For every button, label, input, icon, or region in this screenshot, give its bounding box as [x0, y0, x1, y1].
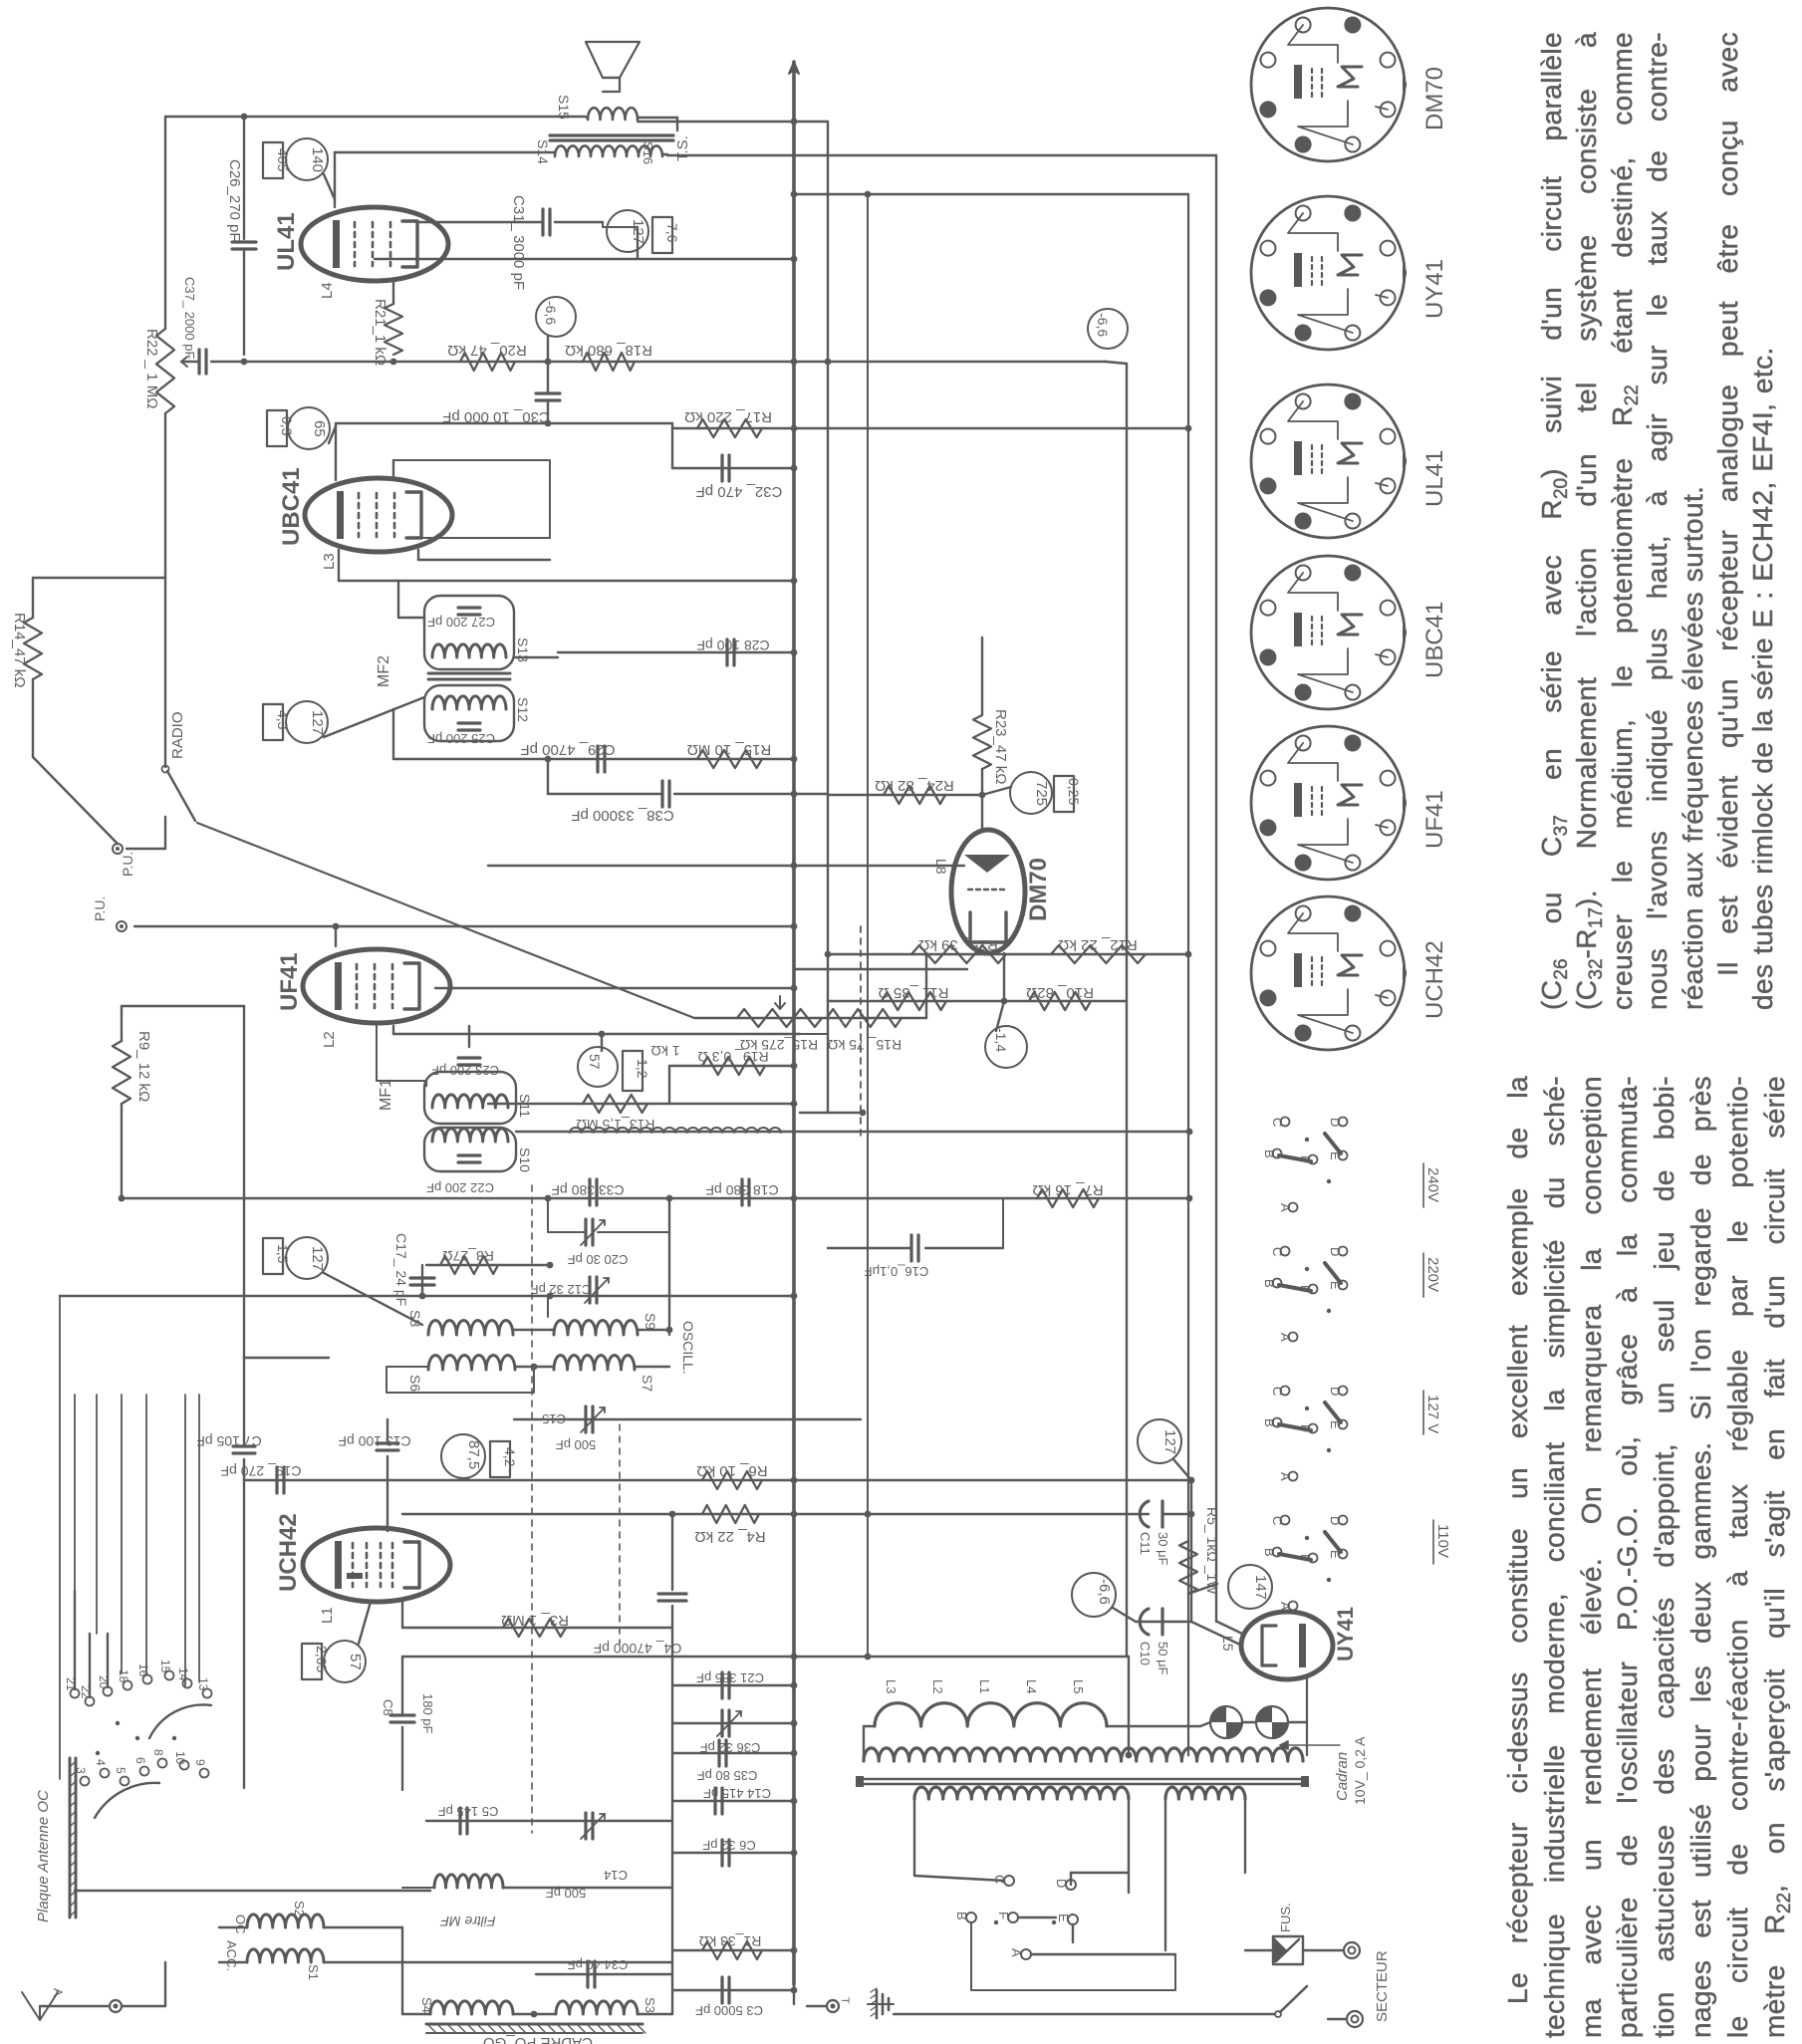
svg-text:R23_47 kΩ: R23_47 kΩ: [992, 709, 1009, 784]
svg-text:C14: C14: [604, 1868, 628, 1883]
svg-text:A: A: [1009, 1948, 1024, 1957]
svg-text:S10: S10: [517, 1148, 533, 1172]
svg-text:D: D: [1328, 1247, 1343, 1256]
svg-text:S6: S6: [407, 1375, 423, 1392]
svg-text:S11: S11: [517, 1094, 533, 1118]
svg-text:C14 415 pF: C14 415 pF: [703, 1786, 771, 1801]
svg-text:C12 32 pF: C12 32 pF: [531, 1282, 592, 1297]
svg-text:R8_27Ω: R8_27Ω: [442, 1248, 494, 1264]
svg-text:0,3: 0,3: [279, 416, 295, 436]
svg-text:S14: S14: [535, 139, 551, 164]
svg-text:S9: S9: [643, 1313, 658, 1330]
svg-text:127: 127: [1161, 1429, 1178, 1454]
svg-text:UF41: UF41: [276, 952, 303, 1011]
svg-text:S16: S16: [641, 141, 655, 164]
svg-text:C20 30 pF: C20 30 pF: [568, 1252, 629, 1267]
svg-text:FUS.: FUS.: [1278, 1903, 1293, 1932]
svg-text:R7_ 16 kΩ: R7_ 16 kΩ: [1032, 1181, 1103, 1198]
svg-text:220V: 220V: [1424, 1257, 1441, 1292]
svg-text:L3: L3: [884, 1679, 899, 1693]
svg-text:R20_ 47 kΩ: R20_ 47 kΩ: [447, 342, 527, 359]
svg-text:57: 57: [347, 1654, 364, 1670]
svg-text:9: 9: [193, 1759, 207, 1766]
svg-text:15: 15: [158, 1660, 172, 1673]
svg-text:10V_ 0,2 A: 10V_ 0,2 A: [1352, 1736, 1368, 1805]
svg-text:F: F: [1298, 1155, 1313, 1163]
svg-text:4,2: 4,2: [502, 1447, 518, 1467]
svg-text:57: 57: [587, 1054, 603, 1070]
svg-text:D: D: [1054, 1879, 1069, 1888]
svg-text:R19_ 0,3 Ω: R19_ 0,3 Ω: [697, 1049, 768, 1065]
svg-text:L5: L5: [1071, 1679, 1086, 1693]
svg-text:DM70: DM70: [1421, 67, 1448, 130]
svg-text:L4: L4: [1024, 1679, 1039, 1693]
svg-text:C5 145 pF: C5 145 pF: [438, 1804, 499, 1819]
svg-text:F: F: [1298, 1554, 1313, 1562]
svg-text:S8: S8: [407, 1310, 423, 1327]
svg-text:127: 127: [309, 710, 326, 735]
svg-text:C4_ 47000 pF: C4_ 47000 pF: [594, 1641, 682, 1657]
svg-text:UBC41: UBC41: [1421, 602, 1448, 678]
svg-text:Cadran: Cadran: [1334, 1752, 1351, 1801]
svg-text:D: D: [1328, 1516, 1343, 1525]
svg-text:S15: S15: [556, 95, 572, 120]
svg-text:L1: L1: [977, 1679, 992, 1693]
svg-text:725: 725: [1033, 781, 1050, 806]
svg-text:R18_ 680 kΩ: R18_ 680 kΩ: [565, 342, 652, 359]
svg-text:C: C: [1270, 1118, 1285, 1127]
svg-text:30 μF: 30 μF: [1156, 1532, 1170, 1566]
svg-text:E: E: [1328, 1550, 1343, 1559]
svg-text:E: E: [1328, 1420, 1343, 1429]
svg-text:S4: S4: [419, 1997, 434, 2013]
svg-text:R10_ 82Ω: R10_ 82Ω: [1026, 984, 1094, 1001]
svg-text:C32_ 470 pF: C32_ 470 pF: [696, 483, 783, 500]
svg-text:R5_ 1kΩ _1W: R5_ 1kΩ _1W: [1204, 1507, 1220, 1595]
svg-text:R15_ 10 MΩ: R15_ 10 MΩ: [687, 741, 772, 758]
svg-text:7,6: 7,6: [664, 223, 680, 243]
svg-text:C6 32 pF: C6 32 pF: [702, 1838, 756, 1853]
svg-text:S3: S3: [643, 1997, 657, 2013]
svg-text:C34 40 pF: C34 40 pF: [568, 1957, 629, 1972]
svg-text:Plaque Antenne OC: Plaque Antenne OC: [35, 1790, 52, 1922]
svg-text:C: C: [1270, 1387, 1285, 1396]
svg-text:C29_ 4700 pF: C29_ 4700 pF: [520, 741, 615, 758]
svg-text:C31_ 3000 pF: C31_ 3000 pF: [510, 195, 527, 290]
svg-text:R15_ 75 kΩ: R15_ 75 kΩ: [828, 1037, 901, 1053]
svg-text:C19_ 270 pF: C19_ 270 pF: [221, 1463, 302, 1479]
svg-text:-6,6: -6,6: [1095, 313, 1111, 337]
svg-text:C33 380 pF: C33 380 pF: [551, 1182, 624, 1198]
svg-text:ACC.: ACC.: [224, 1940, 239, 1971]
svg-text:D: D: [1328, 1118, 1343, 1127]
svg-text:C8: C8: [381, 1699, 395, 1716]
svg-text:10: 10: [173, 1751, 187, 1765]
svg-text:127: 127: [309, 1246, 326, 1271]
svg-text:C25 200 pF: C25 200 pF: [427, 731, 495, 746]
svg-text:UY41: UY41: [1333, 1607, 1358, 1661]
svg-text:R6_ 10 kΩ: R6_ 10 kΩ: [696, 1462, 767, 1479]
svg-text:L2: L2: [321, 1031, 338, 1048]
svg-text:F: F: [996, 1912, 1011, 1919]
svg-text:C7 105 pF: C7 105 pF: [196, 1433, 261, 1449]
svg-text:F: F: [1298, 1424, 1313, 1432]
svg-text:UBC41: UBC41: [278, 467, 305, 546]
svg-text:-6,6: -6,6: [543, 301, 559, 325]
svg-text:E: E: [1056, 1914, 1071, 1922]
svg-text:UY41: UY41: [1421, 259, 1448, 319]
svg-text:C28 100 pF: C28 100 pF: [696, 638, 769, 653]
svg-text:C11: C11: [1138, 1532, 1153, 1555]
svg-text:C23 200 pF: C23 200 pF: [431, 1063, 499, 1078]
svg-text:B: B: [954, 1912, 969, 1920]
svg-text:0,25: 0,25: [1066, 778, 1082, 805]
svg-text:240V: 240V: [1424, 1167, 1441, 1202]
svg-text:18: 18: [117, 1669, 130, 1683]
svg-text:A: A: [1278, 1203, 1293, 1212]
svg-text:500 pF: 500 pF: [556, 1437, 597, 1452]
svg-text:L5: L5: [1220, 1636, 1236, 1652]
svg-text:16: 16: [136, 1663, 150, 1677]
svg-text:C16_0,1μF: C16_0,1μF: [865, 1264, 929, 1279]
svg-text:3: 3: [74, 1767, 88, 1774]
svg-text:A: A: [1278, 1472, 1293, 1481]
svg-text:A: A: [1278, 1602, 1293, 1611]
svg-text:C18 380 pF: C18 380 pF: [705, 1182, 778, 1198]
svg-text:C22 200 pF: C22 200 pF: [426, 1180, 494, 1195]
svg-text:R24_ 82 kΩ: R24_ 82 kΩ: [875, 777, 954, 794]
svg-text:L4: L4: [319, 282, 336, 299]
svg-text:4: 4: [94, 1759, 108, 1766]
svg-text:UCH42: UCH42: [275, 1513, 302, 1592]
svg-text:127: 127: [630, 219, 646, 244]
svg-text:C: C: [1270, 1247, 1285, 1256]
svg-text:127 V: 127 V: [1424, 1395, 1441, 1433]
svg-text:R11 _35 Ω: R11 _35 Ω: [879, 984, 949, 1001]
svg-text:L3: L3: [321, 553, 338, 570]
svg-text:R25_ 39 kΩ: R25_ 39 kΩ: [918, 936, 998, 953]
svg-text:UCH42: UCH42: [1421, 940, 1448, 1019]
svg-text:S7: S7: [640, 1375, 655, 1392]
svg-text:R3_ 1 MΩ: R3_ 1 MΩ: [501, 1612, 569, 1629]
svg-text:CADRE PO_GO: CADRE PO_GO: [483, 2034, 593, 2044]
svg-text:B: B: [1262, 1279, 1277, 1288]
svg-text:P.U.: P.U.: [120, 852, 135, 877]
svg-text:-1,4: -1,4: [993, 1028, 1009, 1052]
svg-text:C15: C15: [542, 1411, 566, 1426]
svg-text:UF41: UF41: [1421, 790, 1448, 849]
svg-text:B: B: [1262, 1418, 1277, 1427]
svg-text:T: T: [839, 1997, 851, 2004]
svg-text:C3 5000 pF: C3 5000 pF: [695, 2003, 763, 2018]
svg-text:8: 8: [151, 1749, 165, 1756]
svg-text:B: B: [1262, 1150, 1277, 1158]
svg-text:OSCILL.: OSCILL.: [680, 1321, 696, 1375]
svg-text:180 pF: 180 pF: [420, 1693, 435, 1734]
svg-text:S2: S2: [292, 1901, 307, 1916]
svg-text:E: E: [1328, 1281, 1343, 1290]
svg-text:R21_1 kΩ: R21_1 kΩ: [372, 299, 388, 366]
svg-text:S1: S1: [306, 1964, 321, 1980]
svg-text:OC: OC: [233, 1915, 248, 1934]
svg-text:C38_ 33000 pF: C38_ 33000 pF: [571, 807, 673, 824]
svg-text:C27 200 pF: C27 200 pF: [427, 615, 495, 630]
svg-text:R14_47 kΩ: R14_47 kΩ: [11, 613, 28, 687]
svg-text:1,2: 1,2: [635, 1059, 650, 1079]
svg-text:147: 147: [1252, 1575, 1269, 1600]
svg-text:B: B: [1262, 1548, 1277, 1557]
svg-text:140: 140: [309, 147, 326, 172]
svg-text:R12_ 22 kΩ: R12_ 22 kΩ: [1058, 936, 1138, 953]
svg-text:-6,6: -6,6: [1096, 1579, 1113, 1605]
svg-text:C13 100 pF: C13 100 pF: [338, 1433, 410, 1449]
svg-text:S13: S13: [515, 638, 531, 662]
svg-text:E: E: [1328, 1151, 1343, 1160]
svg-text:RADIO: RADIO: [169, 711, 186, 759]
svg-text:C: C: [1270, 1516, 1285, 1525]
svg-text:R22 _ 1 MΩ: R22 _ 1 MΩ: [143, 329, 160, 408]
svg-text:87,5: 87,5: [465, 1440, 482, 1469]
svg-text:A: A: [1278, 1333, 1293, 1342]
svg-text:65: 65: [311, 420, 328, 437]
svg-text:L2: L2: [930, 1679, 945, 1693]
svg-text:50 μF: 50 μF: [1156, 1642, 1170, 1675]
svg-text:D: D: [1328, 1387, 1343, 1396]
svg-text:MF2: MF2: [376, 655, 392, 687]
svg-text:110V: 110V: [1434, 1524, 1451, 1558]
svg-text:Filtre MF: Filtre MF: [439, 1914, 496, 1929]
svg-text:C35 80 pF: C35 80 pF: [697, 1768, 758, 1783]
svg-text:1 kΩ: 1 kΩ: [650, 1043, 679, 1059]
svg-text:UL41: UL41: [1421, 450, 1448, 507]
svg-text:T.S.: T.S.: [674, 135, 691, 161]
svg-text:UL41: UL41: [273, 212, 300, 271]
svg-text:R1_33 kΩ: R1_33 kΩ: [699, 1933, 762, 1949]
svg-text:MF1: MF1: [378, 1079, 394, 1111]
svg-text:DM70: DM70: [1025, 858, 1052, 921]
svg-text:R4_ 22 kΩ: R4_ 22 kΩ: [694, 1528, 765, 1545]
svg-text:F: F: [1298, 1285, 1313, 1293]
svg-text:SECTEUR: SECTEUR: [1374, 1950, 1391, 2022]
svg-text:S12: S12: [515, 697, 531, 722]
svg-text:C10: C10: [1138, 1642, 1153, 1665]
svg-text:L1: L1: [319, 1607, 336, 1624]
svg-text:6: 6: [133, 1757, 147, 1764]
svg-text:14: 14: [176, 1667, 190, 1681]
svg-text:C21 385 pF: C21 385 pF: [696, 1670, 764, 1685]
svg-text:R17_ 220 kΩ: R17_ 220 kΩ: [684, 408, 772, 425]
svg-text:C26_270 pF: C26_270 pF: [226, 159, 243, 242]
svg-text:R9_ 12 kΩ: R9_ 12 kΩ: [135, 1031, 152, 1102]
svg-text:A: A: [51, 1988, 65, 1996]
svg-text:C37_ 2000 pF: C37_ 2000 pF: [182, 277, 197, 359]
svg-text:5: 5: [114, 1767, 128, 1774]
svg-text:P.U.: P.U.: [92, 896, 108, 921]
